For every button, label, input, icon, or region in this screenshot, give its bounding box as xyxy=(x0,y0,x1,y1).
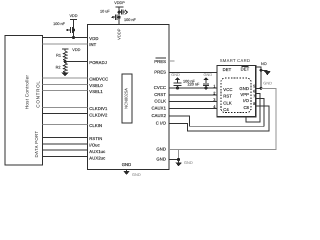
wire card GND pin 5 stub xyxy=(256,87,261,89)
wire GND loop right side xyxy=(179,88,276,149)
wire RSTIN host to IC xyxy=(43,137,88,139)
svg-text:GND: GND xyxy=(132,172,141,177)
svg-text:C8: C8 xyxy=(243,105,249,110)
svg-text:GND: GND xyxy=(122,162,132,167)
svg-text:CONTROL: CONTROL xyxy=(36,80,41,107)
node PORADJ junction xyxy=(64,60,67,63)
resistor R1 xyxy=(56,48,80,61)
node GND junction xyxy=(177,158,180,161)
wire card pin 6 hook xyxy=(246,94,260,122)
host controller box xyxy=(5,36,43,166)
wire CVCC to card pin 1 xyxy=(169,87,217,89)
svg-text:CLKDIV1: CLKDIV1 xyxy=(89,106,108,111)
node NO-GND junction xyxy=(260,69,263,72)
wire CAUX2 (step down) xyxy=(169,116,190,126)
svg-text:PORADJ: PORADJ xyxy=(89,60,107,65)
wire PRES to card DET xyxy=(169,71,217,73)
svg-text:DATA PORT: DATA PORT xyxy=(34,131,39,158)
wire CLKDIV1 host to IC xyxy=(43,106,88,108)
wire AUX2uc host to IC xyxy=(43,155,88,157)
svg-text:DET: DET xyxy=(241,66,250,71)
svg-text:PRES: PRES xyxy=(154,59,166,64)
svg-text:10 uF: 10 uF xyxy=(100,10,110,14)
svg-text:CAUX2: CAUX2 xyxy=(152,113,167,118)
svg-text:CLKIN: CLKIN xyxy=(89,123,102,128)
svg-text:C4: C4 xyxy=(223,107,229,112)
svg-text:100 nF: 100 nF xyxy=(53,22,66,26)
svg-text:RSTIN: RSTIN xyxy=(89,136,102,141)
wire CLKDIV2 host to IC xyxy=(43,113,88,115)
wire IC GND upper xyxy=(169,148,179,150)
svg-text:DET: DET xyxy=(223,67,232,72)
svg-text:CMDVCC: CMDVCC xyxy=(89,77,108,82)
ground (IC bottom GND) xyxy=(123,170,141,178)
svg-text:VDD: VDD xyxy=(89,36,98,41)
svg-text:GND: GND xyxy=(156,157,166,162)
card contacts dashed box xyxy=(221,78,251,113)
svg-text:C I/O: C I/O xyxy=(156,121,167,126)
svg-text:GND: GND xyxy=(171,72,180,77)
svg-text:AUX1uc: AUX1uc xyxy=(89,149,105,154)
svg-text:GND: GND xyxy=(184,160,193,165)
wire INT host to IC xyxy=(43,43,88,45)
wire I/Ouc host to IC xyxy=(43,143,88,145)
svg-text:CRST: CRST xyxy=(154,92,166,97)
svg-text:GND: GND xyxy=(263,80,272,85)
wire CAUX1 to card pin 4 xyxy=(169,107,217,109)
IC right pin labels xyxy=(154,58,166,64)
svg-text:CLK: CLK xyxy=(223,100,232,105)
wire card DET switch to NO node xyxy=(256,67,261,89)
svg-text:CCLK: CCLK xyxy=(154,99,166,104)
svg-text:CVCC: CVCC xyxy=(154,85,166,90)
wire IC GND lower xyxy=(169,159,179,161)
svg-text:CAUX1: CAUX1 xyxy=(152,106,167,111)
svg-text:NO: NO xyxy=(261,62,267,66)
wire PRES stub xyxy=(169,60,175,62)
ground (below R2) xyxy=(61,72,69,76)
wire VSEL1 host to IC xyxy=(43,89,88,91)
svg-text:GND: GND xyxy=(156,147,166,152)
svg-text:VDD: VDD xyxy=(72,48,80,52)
wire CRST to card pin 2 xyxy=(169,94,217,96)
wire CAUX2 return (grey, to card pin 7) xyxy=(190,125,265,127)
smart card connector box xyxy=(217,66,256,117)
svg-text:220 nF: 220 nF xyxy=(188,83,201,87)
wire C I/O (step down) xyxy=(169,106,269,131)
svg-text:AUX2uc: AUX2uc xyxy=(89,155,105,160)
svg-text:VPP: VPP xyxy=(240,92,249,97)
svg-text:R2: R2 xyxy=(56,65,61,69)
svg-text:GND: GND xyxy=(204,72,213,77)
svg-text:R1: R1 xyxy=(56,54,61,58)
ground (IC right GND) xyxy=(175,160,193,167)
capacitor 220 nF (CVCC, right) xyxy=(188,72,213,90)
wire VSEL0 host to IC xyxy=(43,83,88,85)
node card GND junction xyxy=(260,87,263,90)
capacitor 100 nF (CVCC, left) xyxy=(171,72,195,89)
svg-text:VCC: VCC xyxy=(223,87,232,92)
ground (card presence switch) xyxy=(261,70,272,85)
svg-text:SMART CARD: SMART CARD xyxy=(220,58,251,63)
svg-text:VSEL1: VSEL1 xyxy=(89,89,103,94)
IC name box xyxy=(122,74,132,123)
wire PORADJ to IC xyxy=(65,61,87,63)
card pin DET (right, overline) xyxy=(241,66,250,71)
resistor R2 xyxy=(56,62,67,73)
wire GND tie vertical xyxy=(178,149,180,159)
svg-text:I/Ouc: I/Ouc xyxy=(89,143,100,148)
capacitor 100 nF (VDD decoupling) xyxy=(53,22,75,39)
wire CCLK to card pin 3 xyxy=(169,100,217,102)
power VDDP (top) xyxy=(114,1,125,25)
svg-text:VDDP: VDDP xyxy=(114,1,125,5)
svg-text:PRES: PRES xyxy=(154,70,166,75)
svg-text:VSEL0: VSEL0 xyxy=(89,83,103,88)
svg-text:I/O: I/O xyxy=(243,98,250,103)
svg-text:100 nF: 100 nF xyxy=(124,18,137,22)
wire CLKIN host to IC xyxy=(43,123,88,125)
IC U1 NCN8025 box xyxy=(88,25,170,170)
capacitor 10 uF (VDDP left) xyxy=(100,10,121,20)
svg-text:Host Controller: Host Controller xyxy=(25,75,30,110)
svg-text:RST: RST xyxy=(223,94,232,99)
wire VDD host to IC xyxy=(43,37,88,39)
wire CMDVCC host to IC xyxy=(43,77,88,79)
power VDD (top) xyxy=(69,14,77,38)
svg-text:INT: INT xyxy=(89,42,96,47)
svg-text:NCN8025A: NCN8025A xyxy=(123,88,128,109)
wire AUX1uc host to IC xyxy=(43,149,88,151)
capacitor 100 nF (VDDP right) xyxy=(118,10,137,23)
svg-text:VDD: VDD xyxy=(69,14,77,18)
svg-text:VDDP: VDDP xyxy=(117,28,122,40)
svg-text:GND: GND xyxy=(239,86,249,91)
svg-text:CLKDIV2: CLKDIV2 xyxy=(89,112,108,117)
